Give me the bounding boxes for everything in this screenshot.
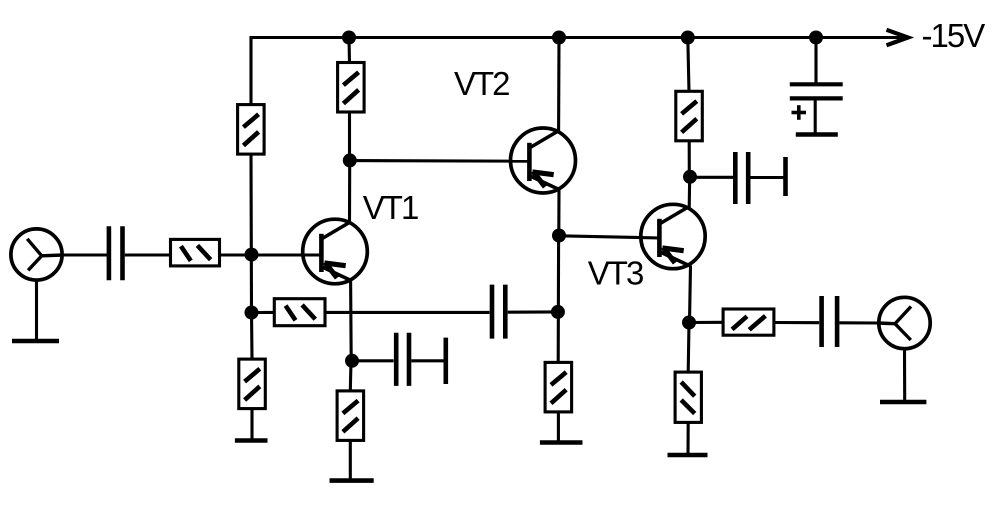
resistor R6 (VT1 emitter): [337, 391, 364, 441]
ground (output): [880, 400, 926, 405]
ground (C6): [796, 132, 838, 137]
generator G2 (output) circle: [879, 297, 930, 348]
C3 termination bar: [443, 338, 448, 384]
node: VT3 emitter / output tap: [682, 316, 696, 330]
wire: VT1 emitter node down to R6: [349, 361, 353, 391]
node: rail junction above VT3 collector: [681, 31, 695, 45]
wire: G2 to ground: [903, 351, 906, 403]
wire: node to C3: [352, 359, 394, 362]
wire: R10 to ground: [250, 409, 253, 441]
wire: VT1 emitter down: [349, 280, 353, 361]
capacitor C2 (series): [490, 285, 495, 339]
transistor VT3: [641, 204, 705, 268]
wire: R2 to VT1 base: [219, 253, 321, 256]
node: feedback node below input: [245, 306, 259, 320]
capacitor C4 (VT3 collector tap): [733, 152, 738, 204]
transistor VT1: [303, 219, 368, 284]
wire: VT2 emitter node down to C2 node: [557, 236, 560, 363]
wire: node to R8: [689, 321, 723, 324]
node: rail junction above VT1 collector: [342, 31, 356, 45]
wire: C3 to open bar: [411, 359, 443, 362]
wire: node to VT3 base: [559, 236, 661, 238]
node: input node at VT1 base: [245, 248, 259, 262]
C4 termination bar: [783, 157, 788, 196]
resistor R7 (VT3 collector load): [676, 91, 703, 141]
ground (VT3 emitter): [668, 453, 708, 458]
node: VT3 collector / C4 tap: [683, 170, 697, 184]
wire: R6 to ground: [349, 440, 352, 481]
wire: input node chain down to R10: [250, 313, 254, 360]
wire: C4 tap to C4: [690, 176, 733, 179]
wire: VT1 collector up to node: [348, 160, 351, 222]
capacitor C6 (electrolytic on rail) wire: [814, 38, 817, 84]
resistor R4 (VT2 emitter): [545, 362, 572, 412]
generator G1 (input source) circle: [11, 229, 62, 280]
svg-text:VT3: VT3: [588, 255, 643, 292]
C6 plate 2: [790, 96, 843, 100]
C6 plate 1: [790, 82, 843, 86]
svg-text:VT1: VT1: [363, 189, 418, 226]
wire: R1 to input node and down to feedback node: [249, 154, 253, 313]
ground (input divider): [235, 438, 268, 443]
ground (VT2 emitter): [540, 440, 583, 445]
wire: G1 to ground: [35, 281, 38, 341]
resistor R3 (VT1 collector load): [338, 63, 365, 113]
transistor VT2: [511, 128, 576, 193]
ground (input source): [12, 339, 59, 344]
wire: C2 to VT2 emitter chain: [508, 310, 558, 313]
node: VT1 emitter node: [345, 354, 359, 368]
wire: VT3 emitter down to node: [690, 266, 691, 323]
wire: C4 to open bar: [751, 176, 784, 179]
wire: VT2 emitter down to node: [557, 190, 560, 236]
svg-text:-15V: -15V: [922, 17, 986, 54]
resistor R5 (feedback): [274, 299, 325, 326]
wire: R9 to ground: [686, 422, 689, 455]
wire: R5 to C2 (crosses VT1 emitter lead, no junction): [325, 311, 489, 314]
capacitor C5 (output coupling): [819, 296, 824, 347]
wire: VT2 collector to rail: [557, 38, 561, 132]
wire: VT3 emitter node down to R9: [687, 323, 691, 373]
ground (VT1 emitter): [330, 478, 374, 483]
wire: R8 to C5: [774, 321, 819, 324]
wire: feedback node to R5: [252, 311, 275, 314]
rail arrowhead: [887, 30, 909, 46]
node: C2 right / VT2 emitter chain: [551, 305, 565, 319]
wire: node up to R3: [348, 111, 351, 160]
svg-text:VT2: VT2: [454, 65, 509, 102]
wire: VT1 collector node to VT2 base: [350, 159, 530, 163]
power rail -15V: [251, 36, 904, 39]
resistor R10 (input divider lower): [239, 359, 265, 409]
node: rail junction above VT2 collector: [552, 31, 566, 45]
wire: R7 to rail: [688, 38, 689, 92]
resistor R1: [238, 105, 265, 155]
resistor R9 (VT3 emitter): [675, 372, 701, 422]
G1 arrow symbol: [27, 239, 42, 270]
node: rail junction above C6: [809, 31, 823, 45]
wire: node up to R7: [688, 141, 691, 177]
node: VT1 collector / VT2 base: [343, 153, 357, 167]
capacitor C1 (input coupling): [107, 226, 112, 280]
resistor R2 (input series): [171, 239, 220, 266]
wire: R3 to rail: [347, 38, 351, 64]
wire: G1 to C1: [61, 253, 107, 256]
wire: VT3 collector up to node: [688, 177, 692, 208]
wire: C5 to G2: [839, 321, 878, 324]
wire: C1 to R2: [125, 253, 171, 256]
C6 plus sign: [792, 111, 807, 115]
node: VT2 emitter / VT3 base: [552, 229, 566, 243]
wire: rail left end down to R1: [249, 36, 252, 105]
capacitor C3 (VT1 emitter bypass): [394, 333, 399, 386]
G2 arrow symbol: [895, 307, 911, 341]
wire: C6 to ground bar: [814, 98, 817, 134]
wire: R4 to ground: [557, 411, 560, 442]
resistor R8 (output series): [723, 309, 774, 335]
